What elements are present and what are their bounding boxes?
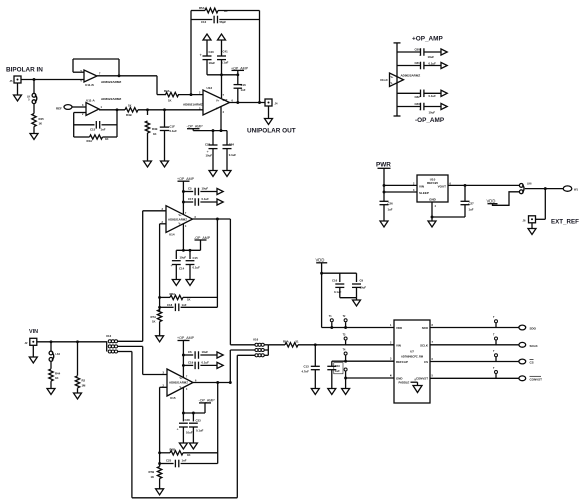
svg-text:C15: C15 (193, 256, 199, 260)
svg-text:-OP_AMP: -OP_AMP (199, 399, 216, 403)
svg-text:C16: C16 (241, 83, 247, 87)
svg-text:10uF: 10uF (429, 111, 436, 115)
svg-text:U11-D: U11-D (380, 78, 388, 82)
svg-text:VOUT: VOUT (438, 184, 447, 188)
svg-text:R4E: R4E (152, 127, 158, 131)
svg-text:C24: C24 (229, 142, 235, 146)
svg-text:AD7684BCPZ_RM: AD7684BCPZ_RM (401, 354, 423, 358)
svg-text:AD8021ARMZ: AD8021ARMZ (168, 217, 187, 221)
svg-text:C41: C41 (223, 50, 229, 54)
svg-text:0.1uF: 0.1uF (429, 61, 437, 65)
svg-text:R9A: R9A (283, 339, 289, 343)
svg-text:1K: 1K (39, 122, 43, 126)
svg-text:VIN: VIN (29, 329, 38, 335)
svg-text:1K: 1K (55, 376, 59, 380)
svg-text:C25: C25 (166, 459, 172, 463)
svg-text:C15: C15 (90, 128, 96, 132)
svg-text:V+: V+ (216, 99, 220, 103)
svg-text:C82: C82 (415, 95, 421, 99)
svg-text:+OP_AMP: +OP_AMP (412, 35, 443, 42)
svg-text:C6: C6 (188, 350, 192, 354)
svg-text:C18: C18 (167, 303, 173, 307)
svg-text:GND: GND (396, 377, 402, 381)
svg-text:REFCAP: REFCAP (396, 360, 408, 364)
svg-text:CONVST: CONVST (530, 378, 543, 382)
svg-text:0.1uF: 0.1uF (334, 290, 342, 294)
svg-text:V-: V- (216, 106, 219, 110)
svg-text:U15: U15 (170, 396, 176, 400)
svg-text:4.7nF: 4.7nF (302, 369, 310, 373)
svg-text:REF: REF (56, 106, 62, 110)
svg-text:0.1uF: 0.1uF (202, 360, 210, 364)
svg-text:R7B: R7B (149, 470, 155, 474)
svg-text:56pF: 56pF (220, 20, 227, 24)
svg-text:10uF: 10uF (202, 187, 209, 191)
svg-text:R4A: R4A (164, 89, 170, 93)
svg-text:R4A: R4A (87, 139, 93, 143)
svg-text:0.1uF: 0.1uF (196, 428, 204, 432)
svg-text:AD8022ARMZ: AD8022ARMZ (101, 97, 121, 101)
svg-text:VIN: VIN (419, 184, 424, 188)
svg-text:C9: C9 (360, 278, 364, 282)
svg-text:1M: 1M (82, 383, 87, 387)
svg-text:1nF: 1nF (241, 88, 246, 92)
svg-text:C33: C33 (196, 419, 202, 423)
svg-text:LK6: LK6 (527, 182, 532, 185)
svg-text:C16: C16 (332, 278, 338, 282)
svg-text:AD8021ARMZ: AD8021ARMZ (169, 381, 188, 385)
svg-text:R6A: R6A (170, 292, 176, 296)
svg-text:C26: C26 (388, 202, 394, 206)
svg-text:VDD: VDD (316, 257, 325, 262)
svg-text:R2: R2 (82, 378, 86, 382)
svg-text:REF195: REF195 (427, 181, 438, 185)
svg-text:1uF: 1uF (388, 208, 393, 212)
svg-text:U13: U13 (207, 86, 213, 90)
svg-text:+OP_AMP: +OP_AMP (177, 336, 195, 340)
svg-text:1uF: 1uF (469, 208, 474, 212)
svg-text:U11-A: U11-A (86, 99, 96, 103)
svg-text:AD8022ARMZ: AD8022ARMZ (101, 80, 121, 84)
svg-text:U16: U16 (253, 338, 259, 342)
svg-text:OUT: OUT (223, 100, 228, 102)
svg-text:C12: C12 (201, 20, 207, 24)
svg-text:0.1uF: 0.1uF (193, 265, 201, 269)
svg-text:AD8022ARMZ: AD8022ARMZ (401, 74, 421, 78)
svg-text:R45: R45 (39, 117, 45, 121)
svg-text:C10: C10 (335, 364, 340, 368)
svg-text:VIN: VIN (396, 343, 401, 347)
svg-text:0.1uF: 0.1uF (229, 153, 237, 157)
svg-text:-OP_AMP: -OP_AMP (194, 236, 211, 240)
svg-text:C81: C81 (415, 61, 421, 65)
svg-text:-OP_AMP: -OP_AMP (187, 125, 204, 129)
svg-text:1K: 1K (128, 104, 132, 108)
svg-text:1K: 1K (152, 320, 156, 324)
svg-text:CS: CS (424, 360, 428, 364)
svg-text:R44: R44 (55, 371, 61, 375)
svg-text:PADDLE: PADDLE (399, 381, 410, 385)
svg-text:R7A: R7A (151, 315, 157, 319)
svg-text:51: 51 (296, 339, 300, 343)
svg-text:1K: 1K (224, 9, 228, 13)
svg-text:V-: V- (180, 386, 182, 389)
svg-text:R6B: R6B (170, 448, 176, 452)
svg-text:CONVST: CONVST (416, 377, 428, 381)
svg-text:0.1uF: 0.1uF (202, 197, 210, 201)
svg-text:1K: 1K (151, 475, 155, 479)
svg-text:U7: U7 (410, 349, 414, 353)
svg-text:U11-B: U11-B (85, 83, 95, 87)
svg-text:10uF: 10uF (209, 61, 216, 65)
svg-text:AD8021ARMZ: AD8021ARMZ (183, 102, 203, 106)
svg-text:-OP_AMP: -OP_AMP (415, 117, 445, 124)
svg-text:1K: 1K (168, 98, 172, 102)
svg-text:W1: W1 (574, 187, 578, 191)
svg-text:1nF: 1nF (182, 459, 187, 463)
svg-text:R4B: R4B (126, 113, 132, 117)
svg-text:10uF: 10uF (206, 154, 213, 158)
svg-text:1nF: 1nF (182, 303, 187, 307)
svg-text:C17: C17 (188, 197, 194, 201)
svg-text:10uF: 10uF (428, 55, 435, 59)
svg-text:+: + (419, 108, 421, 112)
svg-text:GND: GND (429, 198, 437, 202)
svg-text:VDD: VDD (396, 326, 402, 330)
svg-text:10uF: 10uF (360, 285, 367, 289)
svg-text:SCLK: SCLK (530, 344, 539, 348)
svg-text:1K: 1K (105, 137, 109, 141)
svg-text:10uF: 10uF (186, 430, 193, 434)
svg-text:1K: 1K (187, 298, 191, 302)
svg-text:C14: C14 (179, 267, 185, 271)
svg-text:SLEEP: SLEEP (419, 191, 429, 195)
svg-text:C5: C5 (188, 187, 192, 191)
svg-text:0.1uF: 0.1uF (170, 129, 178, 133)
svg-text:C40: C40 (209, 50, 215, 54)
svg-text:V-: V- (391, 83, 393, 85)
svg-text:1K: 1K (187, 453, 191, 457)
svg-text:C23: C23 (205, 142, 211, 146)
svg-text:C27: C27 (469, 202, 475, 206)
svg-text:PWR: PWR (376, 162, 391, 169)
svg-text:1uF: 1uF (335, 369, 340, 373)
svg-text:BIPOLAR IN: BIPOLAR IN (6, 67, 43, 74)
svg-text:0.1uF: 0.1uF (429, 94, 437, 98)
svg-text:C83: C83 (415, 102, 421, 106)
svg-text:EXT_REF: EXT_REF (551, 218, 579, 225)
svg-text:SCLK: SCLK (420, 343, 429, 347)
svg-text:1K: 1K (153, 132, 157, 136)
svg-text:10uF: 10uF (180, 255, 187, 259)
svg-text:C13: C13 (304, 364, 310, 368)
svg-text:SDO: SDO (530, 327, 537, 331)
svg-text:SDO: SDO (422, 326, 429, 330)
svg-text:LK4: LK4 (56, 353, 61, 356)
svg-text:R5A: R5A (199, 6, 205, 10)
svg-text:C80: C80 (415, 47, 421, 51)
svg-text:C19: C19 (188, 360, 194, 364)
svg-text:U14: U14 (169, 233, 175, 237)
svg-text:1nF: 1nF (101, 128, 106, 132)
svg-text:C28: C28 (185, 418, 191, 422)
svg-text:+: + (419, 54, 421, 58)
svg-text:+OP_AMP: +OP_AMP (177, 177, 195, 181)
svg-text:+OP_AMP: +OP_AMP (231, 66, 249, 70)
svg-text:U12: U12 (106, 334, 112, 338)
svg-text:CS: CS (530, 361, 534, 365)
svg-text:10uF: 10uF (202, 350, 209, 354)
svg-text:UNIPOLAR OUT: UNIPOLAR OUT (247, 127, 296, 134)
svg-text:VDD: VDD (487, 199, 496, 204)
svg-text:V-: V- (179, 223, 181, 226)
